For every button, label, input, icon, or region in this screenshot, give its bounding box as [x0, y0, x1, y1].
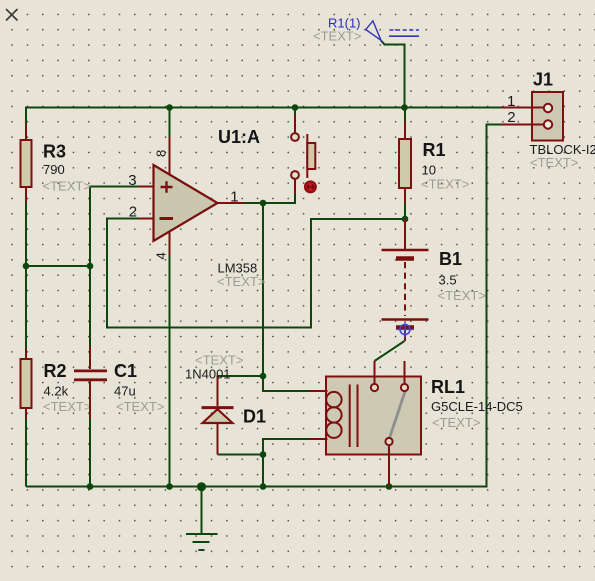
svg-text:R1: R1 — [423, 140, 446, 160]
junction top bus R1 probe — [401, 104, 408, 111]
wire battery bottom diagonal to relay pin — [375, 341, 405, 361]
wire opamp pin2 feedback net — [107, 219, 405, 328]
wire left node to C1 node — [26, 265, 90, 267]
svg-text:3.5: 3.5 — [439, 273, 457, 288]
svg-text:C1: C1 — [114, 361, 137, 381]
junction ground bus relay common — [386, 483, 393, 490]
wire R1 bottom to battery node — [404, 204, 406, 220]
junction ground bus ground — [197, 482, 206, 491]
svg-text:790: 790 — [43, 162, 65, 177]
svg-text:RL1: RL1 — [431, 377, 465, 397]
svg-text:<TEXT>: <TEXT> — [438, 288, 486, 303]
svg-text:D1: D1 — [243, 407, 266, 427]
wire opamp output to button — [244, 194, 295, 204]
wire C1 node down to C1 top — [89, 266, 91, 346]
svg-text:3: 3 — [128, 172, 136, 189]
junction ground bus D1 node — [260, 483, 267, 490]
junction top bus button — [292, 104, 299, 111]
resistor R1 — [399, 121, 411, 204]
battery origin marker — [397, 321, 414, 338]
wire top bus net — [26, 108, 501, 125]
svg-text:B1: B1 — [439, 249, 462, 269]
svg-text:<TEXT>: <TEXT> — [421, 177, 469, 192]
junction top bus pin8 — [166, 104, 173, 111]
capacitor C1 — [74, 346, 107, 419]
junction D1 cathode node — [260, 373, 267, 380]
svg-text:1N4001: 1N4001 — [185, 367, 231, 382]
relay RL1 — [310, 361, 421, 487]
svg-text:<TEXT>: <TEXT> — [217, 274, 265, 289]
svg-text:<TEXT>: <TEXT> — [530, 155, 578, 170]
wire C1 node up to opamp pin3 — [90, 187, 139, 267]
svg-text:R3: R3 — [43, 142, 66, 162]
junction ground bus pin4 — [166, 483, 173, 490]
ground — [186, 487, 218, 551]
svg-text:J1: J1 — [533, 70, 553, 90]
voltage probe R1(1) — [366, 21, 419, 41]
push button — [291, 114, 317, 194]
wire R2 bottom to ground bus — [25, 418, 27, 487]
wire bottom ground bus and right riser to J1 pin2 — [26, 125, 501, 487]
battery B1 — [382, 219, 429, 341]
wire probe drop — [381, 41, 405, 108]
junction ground bus C1 — [87, 483, 94, 490]
wire left node to R2 top — [25, 266, 27, 349]
svg-text:<TEXT>: <TEXT> — [195, 353, 243, 368]
junction D1 anode node — [260, 451, 267, 458]
wire node to relay coil bottom — [263, 439, 311, 455]
svg-text:G5CLE-14-DC5: G5CLE-14-DC5 — [431, 399, 523, 414]
wire opamp pin4 to ground bus — [169, 256, 171, 487]
svg-text:<TEXT>: <TEXT> — [432, 415, 480, 430]
wire D1 cathode to node — [218, 375, 264, 377]
svg-text:U1:A: U1:A — [218, 127, 260, 147]
wire C1 bottom to ground bus — [89, 419, 91, 487]
junction R1 battery pin2 — [402, 216, 409, 223]
svg-text:<TEXT>: <TEXT> — [116, 399, 164, 414]
origin marker X — [6, 9, 18, 21]
svg-text:2: 2 — [507, 109, 515, 126]
wire R3 bottom to left node — [25, 202, 27, 266]
resistor R2 — [21, 349, 32, 418]
wire node to relay coil top — [263, 376, 311, 391]
wire R1 top drop — [404, 108, 406, 122]
connector J1 — [501, 92, 563, 141]
junction opamp output — [260, 200, 267, 207]
svg-text:R2: R2 — [44, 361, 67, 381]
svg-text:8: 8 — [154, 150, 169, 157]
svg-text:10: 10 — [422, 163, 436, 178]
wire button top drop — [294, 108, 296, 115]
wire D1 anode to node — [218, 454, 264, 456]
junction C1 pin3 node — [87, 263, 94, 270]
wire opamp output down to D1 node — [262, 203, 264, 376]
svg-text:4.2k: 4.2k — [44, 384, 69, 399]
wire node down to ground bus — [262, 455, 264, 487]
svg-text:<TEXT>: <TEXT> — [313, 29, 361, 44]
wire button bottom drop — [294, 194, 296, 204]
svg-text:2: 2 — [129, 204, 137, 221]
resistor R3 — [21, 124, 32, 202]
svg-text:1: 1 — [507, 93, 515, 110]
diode D1 — [202, 376, 234, 455]
wire pin8 drop — [169, 108, 171, 139]
svg-text:1: 1 — [230, 188, 238, 205]
svg-text:4: 4 — [154, 252, 169, 259]
svg-text:47u: 47u — [114, 384, 136, 399]
svg-text:<TEXT>: <TEXT> — [43, 399, 91, 414]
op-amp U1 — [139, 137, 244, 256]
svg-text:<TEXT>: <TEXT> — [43, 179, 91, 194]
junction R3 R2 node — [23, 263, 30, 270]
